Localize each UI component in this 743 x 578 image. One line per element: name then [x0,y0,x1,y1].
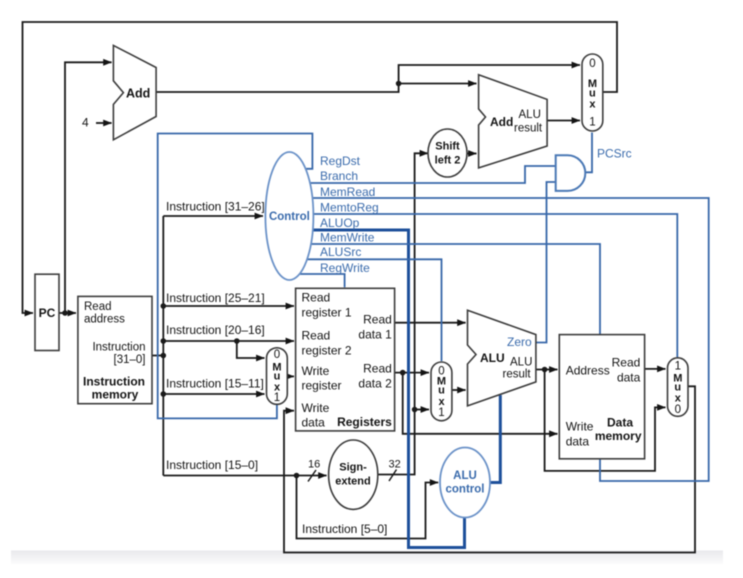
svg-text:Data: Data [607,416,633,430]
svg-text:Write: Write [566,419,594,433]
32-bit slash [389,470,397,482]
svg-text:1: 1 [675,361,681,373]
wire: Add1 output (PC+4) up to PCSrc mux input 0 [156,65,580,92]
registers port labels [302,291,393,430]
svg-text:register 1: register 1 [302,306,352,320]
svg-text:0: 0 [274,349,280,361]
wire: RegDst from Control to write-register mux select [158,134,313,419]
mux PCSrc [582,54,603,131]
svg-text:Read: Read [363,312,392,326]
wire: constant 4 into Add1 [96,122,112,124]
instruction memory [78,296,152,403]
svg-text:Instruction [5–0]: Instruction [5–0] [302,522,387,536]
wire: Instruction [15-0] to sign-extend [163,475,326,477]
svg-text:Write: Write [302,364,330,378]
AND gate (branch) [556,155,586,191]
svg-text:[31–0]: [31–0] [114,354,146,366]
svg-text:result: result [514,123,543,135]
svg-text:memory: memory [595,429,642,443]
wire: Instruction [5-0] to ALU control [297,476,439,539]
node: instruction 15-0 branch [294,473,300,479]
svg-text:Control: Control [269,211,310,223]
wire: instruction memory output to instruction bus [151,355,163,357]
svg-text:data: data [566,435,590,449]
svg-text:left 2: left 2 [435,155,461,167]
adder Add1 [113,45,156,139]
wire: PC feedback loop (mux output -> top -> left -> PC input) [23,22,618,313]
wire: MemtoReg mux output write-back to Registers write data [284,386,695,552]
wire: ALU result to data memory address [536,369,558,371]
svg-text:u: u [438,385,445,397]
svg-text:ALU: ALU [480,351,505,365]
wire: PC output to instruction memory read address [59,312,76,314]
wire: ALU control output to ALU select (thick) [488,395,500,482]
registers [296,288,395,431]
wire: sign-extend branch to ALUSrc mux input 1 [415,409,429,411]
wire: Instruction [15-11] to write-register mux input 1 [163,393,264,395]
svg-text:32: 32 [389,459,401,471]
svg-text:Read: Read [84,301,112,313]
svg-text:16: 16 [308,459,320,471]
node: instruction 20-16 branch [234,338,240,344]
svg-text:Instruction [20–16]: Instruction [20–16] [166,323,265,337]
node: read data 2 branch [400,370,406,376]
node: PC output junction [62,310,68,316]
svg-text:Instruction: Instruction [83,375,145,389]
svg-text:0: 0 [675,404,681,416]
node: instruction bus junctions [161,303,167,309]
svg-text:Instruction [15–11]: Instruction [15–11] [166,377,264,391]
svg-text:Read: Read [612,355,641,369]
wire: ALU result routed to MemtoReg mux input 0 [545,370,666,471]
wire: Instruction [20-16] branch to write-register mux input 0 [237,341,265,358]
node: sign-extend output branch [412,407,418,413]
wire: Read data 2 to ALUSrc mux input 0 [395,372,429,374]
wire: shift-left-2 output to Add2 bottom input [467,153,477,155]
svg-text:register: register [302,379,342,393]
wire: MemtoReg from Control to MemtoReg mux select [300,214,677,357]
wire: PC output up to Add1 top input [65,62,112,313]
svg-text:ALU: ALU [510,357,532,369]
svg-text:RegDst: RegDst [320,154,361,168]
svg-text:Instruction [31–26]: Instruction [31–26] [166,200,265,214]
control signal labels [320,154,379,275]
svg-text:ALUSrc: ALUSrc [320,245,361,259]
wire: Branch from Control to AND gate [300,166,556,183]
svg-text:register 2: register 2 [302,344,352,358]
svg-text:1: 1 [274,392,280,404]
svg-text:data 1: data 1 [358,327,392,341]
wire: MemRead from Control to data memory bottom [300,198,709,481]
wire: write-register mux output to Registers [287,375,294,377]
wire: sign-extend output up to shift-left-2 and ALUSrc mux input 1 [378,153,428,474]
svg-text:1: 1 [438,407,444,419]
mux write-register [267,348,288,405]
wire: PC+4 branch to Add2 top input [399,83,477,85]
svg-text:MemtoReg: MemtoReg [320,200,379,214]
wire: Instruction [25-21] to Read register 1 [163,305,294,307]
mux ALUSrc [431,362,452,421]
adder Add2 (branch target) [479,75,547,168]
svg-text:1: 1 [589,117,595,129]
svg-text:Registers: Registers [337,415,392,429]
svg-text:Read: Read [302,291,331,305]
wire: Read data 2 branch to data memory write data [403,373,558,434]
svg-text:extend: extend [335,476,370,488]
svg-text:data: data [302,416,326,430]
ALU control unit [440,448,490,518]
wire: RegWrite from Control to Registers [292,274,345,287]
wire: Read data 1 to ALU input [395,322,466,324]
wire: data memory read data to MemtoReg mux input 1 [645,368,666,370]
svg-text:ALU: ALU [453,470,477,482]
wire: Instruction [20-16] to Read register 2 [163,340,294,342]
svg-text:PCSrc: PCSrc [597,147,632,161]
16-bit slash [308,470,316,482]
svg-text:Write: Write [302,401,330,415]
svg-text:Read: Read [302,329,331,343]
wire: ALUSrc mux output to ALU input [452,389,466,391]
svg-text:MemRead: MemRead [320,185,375,199]
wire: instruction bus vertical [162,216,164,476]
wire: ALUOp from Control to ALU control (thick) [300,230,465,548]
svg-text:4: 4 [82,116,89,130]
svg-text:result: result [503,369,532,381]
wire: Zero from ALU to AND gate input [536,182,556,343]
svg-text:MemWrite: MemWrite [320,231,375,245]
wire: PCSrc from AND gate to PCSrc mux select [585,133,592,173]
node: PC+4 junction [396,81,402,87]
svg-text:memory: memory [92,388,139,402]
svg-text:Instruction [25–21]: Instruction [25–21] [166,291,265,305]
wire: Instruction [31-26] to Control [163,215,263,217]
svg-text:address: address [84,314,125,326]
svg-text:Shift: Shift [435,141,460,153]
shift left 2 [428,129,467,177]
svg-text:data: data [617,371,641,385]
PC register [35,274,59,350]
data memory port labels [566,355,641,448]
svg-text:ALU: ALU [519,109,541,121]
svg-text:Instruction [15–0]: Instruction [15–0] [166,458,258,472]
data memory [559,335,644,459]
svg-text:Sign-: Sign- [339,462,367,474]
mux labels [272,58,682,419]
svg-text:0: 0 [589,58,595,70]
svg-text:RegWrite: RegWrite [320,261,370,275]
svg-text:Zero: Zero [507,335,532,349]
svg-text:PC: PC [39,306,56,320]
control unit [265,152,313,280]
bottom chrome band [11,551,723,565]
wire: Add2 output to PCSrc mux input 1 [547,120,580,122]
ALU [468,310,536,406]
label instruction fields [166,200,387,537]
svg-text:x: x [675,393,682,405]
svg-text:Add: Add [126,86,150,100]
svg-text:Address: Address [566,364,610,378]
mux MemtoReg [668,358,689,417]
svg-text:control: control [446,484,485,496]
node: ALU result branch [542,367,548,373]
svg-text:data 2: data 2 [358,377,392,391]
svg-text:ALUOp: ALUOp [320,216,360,230]
svg-text:Add: Add [490,115,513,129]
sign extend [329,440,378,509]
wire: MemWrite from Control to data memory top [300,244,600,335]
svg-text:x: x [589,98,596,110]
svg-text:Read: Read [363,362,392,376]
svg-text:Branch: Branch [320,169,358,183]
svg-text:Instruction: Instruction [92,342,145,354]
wire: ALUSrc from Control to ALUSrc mux select [298,259,442,361]
